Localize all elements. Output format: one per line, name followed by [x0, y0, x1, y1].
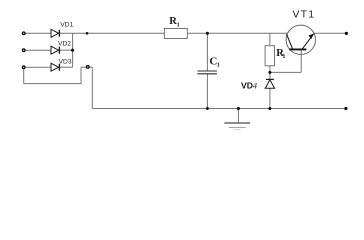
wire VD4 lower lead — [269, 88, 271, 108]
wire R2 lower lead — [269, 66, 271, 73]
wire row3 terminal to VD3 — [25, 66, 52, 68]
node VD4 bottom junction — [268, 107, 271, 110]
resistor R2 vertical — [265, 46, 274, 66]
resistor R1 — [164, 29, 187, 39]
wire base horizontal — [270, 71, 301, 73]
wire top rail VD1 to R1 — [60, 32, 164, 34]
svg-text:1: 1 — [177, 21, 180, 28]
wire ground drop — [237, 109, 239, 124]
wire emitter output — [314, 32, 346, 34]
node neutral terminal — [86, 66, 89, 69]
wire C1 upper lead — [206, 33, 208, 71]
wire base vertical — [300, 51, 302, 73]
wire VD4 upper lead — [269, 72, 271, 79]
node input terminal 2 — [22, 49, 25, 52]
wire row2 terminal to VD2 — [25, 49, 52, 51]
wire row2 VD2 to bus — [60, 49, 73, 51]
wire C1 lower lead — [206, 74, 208, 109]
diode VD4 — [265, 79, 274, 88]
ground — [224, 123, 250, 130]
wire cathode bus vertical — [72, 33, 74, 67]
node C1 top junction — [206, 32, 209, 35]
diode VD3 — [51, 63, 59, 71]
wire neutral top bar — [81, 66, 92, 68]
transistor VT1 — [286, 25, 315, 54]
wire top rail R1 to transistor — [187, 32, 287, 34]
svg-text:1: 1 — [217, 62, 220, 69]
svg-text:VD2: VD2 — [58, 41, 71, 48]
svg-text:VT1: VT1 — [293, 10, 316, 21]
capacitor C1 — [198, 71, 217, 74]
node rail junction — [86, 32, 89, 35]
wire R2 upper lead — [269, 33, 271, 45]
wire row3 VD3 to bus — [60, 66, 73, 68]
svg-text:1: 1 — [282, 53, 285, 60]
node output plus — [345, 32, 348, 35]
wire neutral loop bottom — [24, 83, 81, 85]
node bus row2 junction — [71, 49, 74, 52]
svg-text:VD1: VD1 — [60, 22, 73, 29]
node base junction — [268, 71, 271, 74]
svg-text:VD4: VD4 — [241, 80, 257, 90]
node input terminal 1 — [22, 32, 25, 35]
wire neutral down to bottom rail — [91, 67, 93, 108]
diode VD1 — [51, 29, 59, 37]
svg-text:VD3: VD3 — [59, 59, 72, 66]
node input terminal 3 — [22, 66, 25, 69]
wire neutral loop riser — [80, 67, 82, 83]
node C1 bottom junction — [206, 107, 209, 110]
node output minus — [344, 107, 347, 110]
diode VD2 — [51, 46, 59, 54]
wire row1 terminal to VD1 — [25, 32, 52, 34]
node ground junction — [237, 107, 240, 110]
wire bottom rail — [92, 108, 346, 110]
wire terminal3 drop — [23, 68, 25, 84]
